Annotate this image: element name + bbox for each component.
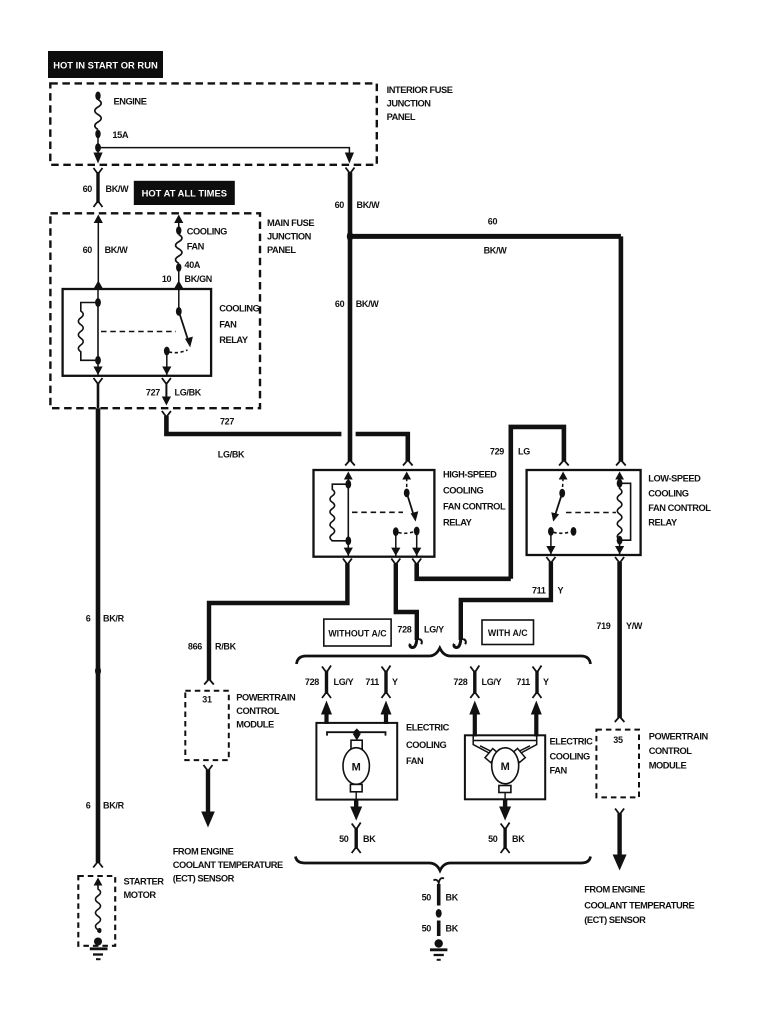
svg-text:866: 866 xyxy=(188,642,202,652)
arrow up fan2 wire a xyxy=(469,701,480,715)
wire: starter feed (thick left vertical) xyxy=(96,408,101,862)
svg-text:50: 50 xyxy=(339,834,349,844)
connector pair 711 (fan1) xyxy=(382,666,391,699)
svg-text:COOLING: COOLING xyxy=(443,486,483,496)
label 60 BK/W (upper) xyxy=(335,200,381,210)
node: junction on main vertical xyxy=(347,232,353,242)
label 10 BK/GN xyxy=(162,274,212,284)
fan2 brush angled left xyxy=(485,749,498,763)
wire: coil center xyxy=(97,303,99,361)
fork below HS relay (866 branch) xyxy=(343,559,352,565)
label LOW-SPEED COOLING FAN CONTROL RELAY xyxy=(648,474,711,528)
svg-text:M: M xyxy=(352,762,361,774)
arrow down fan1 ground xyxy=(350,807,362,821)
arrow up fan1 wire b xyxy=(381,701,392,715)
svg-text:FAN CONTROL: FAN CONTROL xyxy=(648,503,711,513)
svg-text:727: 727 xyxy=(146,388,160,398)
label FROM ENGINE COOLANT TEMPERATURE (ECT) SENSOR (left) xyxy=(173,847,283,884)
fan1 bus junction diamond xyxy=(353,728,361,736)
svg-text:BK: BK xyxy=(363,834,376,844)
arrow up into panel (left branch) xyxy=(94,215,103,224)
fork below LS relay (711 branch) xyxy=(546,557,555,563)
svg-text:BK/R: BK/R xyxy=(103,614,125,624)
svg-text:MOTOR: MOTOR xyxy=(124,890,157,900)
wire: fan2 ground lead xyxy=(503,799,507,808)
node: HS switch common xyxy=(404,489,410,498)
label 711 Y xyxy=(532,586,564,596)
HOT IN START OR RUN label xyxy=(48,51,163,78)
svg-text:31: 31 xyxy=(202,695,212,705)
arrow up at relay box entry (fuse branch) xyxy=(174,281,183,289)
svg-text:BK/W: BK/W xyxy=(484,246,508,256)
wire segment 2 xyxy=(437,921,441,937)
arrow up at relay box entry (left branch) xyxy=(94,281,103,289)
fork at low-speed relay entry right xyxy=(616,460,626,466)
ground chain: half connector xyxy=(434,878,445,885)
svg-text:COOLANT TEMPERATURE: COOLANT TEMPERATURE xyxy=(173,860,283,870)
fork below panel on 727 xyxy=(162,411,171,417)
svg-text:711: 711 xyxy=(532,586,546,596)
relay switch branch xyxy=(178,289,180,311)
label 50 BK (upper) xyxy=(422,893,459,903)
dashed wire to switch common xyxy=(406,478,408,493)
svg-text:728: 728 xyxy=(453,677,467,687)
wire: 866 elbow to PCM 31 xyxy=(209,564,347,681)
node: LS switch NC xyxy=(571,527,577,536)
arrow down LS out xyxy=(546,546,555,554)
svg-text:FAN: FAN xyxy=(187,242,205,252)
wire: 727 continues right of main vertical xyxy=(356,434,408,461)
label ELECTRIC COOLING FAN (1) xyxy=(406,723,450,767)
label 728 LG/Y xyxy=(453,677,501,687)
arrow down at panel exit 727 xyxy=(162,397,171,406)
svg-text:(ECT) SENSOR: (ECT) SENSOR xyxy=(584,915,646,925)
fuse ENGINE 15A (squiggle) xyxy=(95,100,101,130)
wire xyxy=(324,713,328,724)
svg-text:LG/Y: LG/Y xyxy=(334,677,354,687)
wire xyxy=(619,478,621,483)
svg-text:FAN: FAN xyxy=(406,756,424,766)
711 hook tail xyxy=(463,639,466,644)
wire xyxy=(97,221,99,289)
label: MAIN FUSE JUNCTION PANEL xyxy=(267,218,314,255)
WITHOUT A/C box xyxy=(324,619,391,646)
fan1 bus bar xyxy=(327,732,386,735)
LS coil squiggle center xyxy=(617,483,622,540)
lower brace (underbrace) xyxy=(296,857,591,871)
svg-text:BK: BK xyxy=(446,924,459,934)
svg-text:FROM ENGINE: FROM ENGINE xyxy=(173,847,234,857)
arrow up inside HS relay (coil) xyxy=(344,472,353,480)
wire xyxy=(384,713,388,724)
node: HS switch out A xyxy=(393,527,399,536)
electric cooling fan 2 box xyxy=(465,735,545,799)
node: LS switch out xyxy=(548,527,554,536)
fork at PCM 31 entry xyxy=(204,679,214,685)
dashed wire to LS switch common xyxy=(561,478,564,493)
fork at starter motor entry xyxy=(93,862,103,868)
svg-text:M: M xyxy=(501,761,510,773)
svg-text:10: 10 xyxy=(162,274,172,284)
svg-text:728: 728 xyxy=(397,625,411,635)
wire xyxy=(178,221,180,231)
wire xyxy=(97,383,100,408)
connector pair 728 (fan2) xyxy=(470,666,479,699)
label 729 LG xyxy=(490,447,530,457)
wire xyxy=(473,713,477,737)
label 60 BK/W (lower on main vertical) xyxy=(335,299,379,309)
svg-text:15A: 15A xyxy=(112,130,128,140)
fork at high-speed relay entry right xyxy=(403,460,413,466)
wire: thin feed across panel xyxy=(98,148,349,153)
cooling fan relay box xyxy=(63,289,212,376)
coil loop with squiggle xyxy=(78,303,98,361)
svg-text:60: 60 xyxy=(83,184,93,194)
svg-text:BK: BK xyxy=(446,893,459,903)
arrow down at HS coil exit xyxy=(344,548,353,556)
arrow down (to ECT sensor left) xyxy=(201,812,215,828)
ground ball xyxy=(435,939,443,947)
dashed actuator line HS xyxy=(352,511,403,513)
svg-text:RELAY: RELAY xyxy=(219,335,249,345)
node: splice dot xyxy=(436,909,442,918)
node: HS coil bottom xyxy=(345,536,351,545)
728 hook end xyxy=(410,634,417,648)
node: splice on starter feed xyxy=(95,667,101,676)
wire: out B down xyxy=(416,531,418,557)
fork below HS relay (728 branch) xyxy=(391,559,400,565)
LS coil loop (plain right side) xyxy=(620,483,631,540)
node: fuse bottom xyxy=(95,130,100,139)
svg-text:BK/W: BK/W xyxy=(357,200,381,210)
wire: LS out down xyxy=(550,531,552,555)
svg-text:LG: LG xyxy=(518,447,530,457)
wire: main vertical 60 BK/W (thick) xyxy=(348,173,353,462)
connector half (fork) top of main feed xyxy=(346,168,355,174)
arrow up fan2 wire b xyxy=(531,701,542,715)
LS switch blade xyxy=(555,493,562,515)
svg-text:JUNCTION: JUNCTION xyxy=(387,99,432,109)
svg-text:COOLING: COOLING xyxy=(550,752,590,762)
wire: 719 down to PCM 35 xyxy=(617,562,622,718)
fan2 yoke xyxy=(473,735,537,753)
wire: fan1 ground lead xyxy=(354,800,358,808)
relay coil branch xyxy=(97,289,99,303)
main fuse junction panel (dashed box) xyxy=(50,213,260,408)
svg-text:PANEL: PANEL xyxy=(267,245,296,255)
svg-text:MODULE: MODULE xyxy=(649,761,687,771)
svg-text:60: 60 xyxy=(335,200,345,210)
svg-text:BK: BK xyxy=(512,834,525,844)
label COOLING FAN xyxy=(187,227,227,252)
svg-text:MAIN FUSE: MAIN FUSE xyxy=(267,218,314,228)
fan2 bottom brush xyxy=(499,786,511,793)
dashed actuator line LS xyxy=(566,512,616,514)
svg-text:ENGINE: ENGINE xyxy=(114,97,147,107)
node: LS coil top xyxy=(617,479,623,488)
blade arrowhead xyxy=(185,337,193,348)
svg-text:50: 50 xyxy=(422,893,432,903)
svg-text:60: 60 xyxy=(83,245,93,255)
wire xyxy=(534,713,538,737)
label 711 Y xyxy=(516,677,549,687)
label 728 LG/Y xyxy=(305,677,354,687)
wire: fan1 motor to box bottom xyxy=(355,792,357,800)
svg-text:WITH A/C: WITH A/C xyxy=(488,628,528,638)
svg-text:LG/Y: LG/Y xyxy=(424,625,444,635)
label 60 BK/W xyxy=(83,184,130,194)
arrow up fan1 wire a xyxy=(321,701,332,715)
arrow up inside starter xyxy=(94,878,103,886)
fork below HS relay (729 branch) xyxy=(412,559,421,565)
arrow down out B xyxy=(412,548,421,556)
dashed contact link HS xyxy=(399,532,415,534)
label 6 BK/R (upper) xyxy=(86,614,125,624)
svg-text:STARTER: STARTER xyxy=(124,877,165,887)
svg-text:35: 35 xyxy=(613,735,623,745)
node: LS switch common xyxy=(559,489,565,498)
svg-text:60: 60 xyxy=(335,299,345,309)
svg-text:Y: Y xyxy=(392,677,398,687)
electric cooling fan 1 box xyxy=(316,723,397,800)
svg-text:CONTROL: CONTROL xyxy=(236,706,280,716)
svg-text:HIGH-SPEED: HIGH-SPEED xyxy=(443,470,497,480)
svg-text:711: 711 xyxy=(516,677,530,687)
label 50 BK (lower) xyxy=(422,924,459,934)
label 866 R/BK xyxy=(188,642,237,652)
fan1 center arrow xyxy=(353,734,361,741)
svg-text:(ECT) SENSOR: (ECT) SENSOR xyxy=(173,874,235,884)
arrow down at switch exit xyxy=(162,367,171,376)
svg-text:BK/W: BK/W xyxy=(356,299,380,309)
fork at PCM 35 entry xyxy=(615,717,625,723)
HS coil loop with squiggle xyxy=(330,484,348,541)
label 6 BK/R (lower) xyxy=(86,801,125,811)
svg-text:RELAY: RELAY xyxy=(443,518,473,528)
svg-text:WITHOUT A/C: WITHOUT A/C xyxy=(328,629,387,639)
wire: 727 elbow (thick) xyxy=(166,416,341,434)
node: switch output xyxy=(164,347,170,356)
dashed contact link LS xyxy=(554,532,571,534)
starter winding squiggle xyxy=(96,885,101,932)
svg-text:50: 50 xyxy=(488,834,498,844)
arrow down (to ECT sensor right) xyxy=(613,855,627,871)
label 50 BK (fan1) xyxy=(339,834,376,844)
svg-text:FAN: FAN xyxy=(550,766,568,776)
wire: horizontal 60 BK/W to right (thick) xyxy=(350,234,621,239)
svg-text:729: 729 xyxy=(490,447,504,457)
starter ground symbol xyxy=(90,949,108,959)
node: junction at 15A output xyxy=(95,143,101,152)
node: fuse top xyxy=(95,92,100,101)
label 728 LG/Y xyxy=(397,625,444,635)
fork below PCM 31 xyxy=(204,765,213,771)
wire: PCM 35 output down xyxy=(617,814,621,857)
svg-text:COOLING: COOLING xyxy=(219,304,259,314)
interior fuse junction panel (dashed box) xyxy=(50,83,377,164)
svg-text:POWERTRAIN: POWERTRAIN xyxy=(236,693,296,703)
svg-text:727: 727 xyxy=(220,417,234,427)
high-speed cooling fan control relay box xyxy=(314,470,435,557)
svg-text:40A: 40A xyxy=(185,260,201,270)
728 hook tail xyxy=(419,639,422,644)
wire xyxy=(165,383,167,397)
svg-text:728: 728 xyxy=(305,677,319,687)
fork at high-speed relay entry left xyxy=(345,460,355,466)
label COOLING FAN RELAY xyxy=(219,304,259,346)
fork below LS relay (719 branch) xyxy=(615,557,624,563)
svg-text:BK/GN: BK/GN xyxy=(185,274,213,284)
node: HS coil top xyxy=(345,480,351,489)
fork below relay (727 output) xyxy=(162,378,171,384)
node xyxy=(95,298,101,307)
label FROM ENGINE COOLANT TEMPERATURE (ECT) SENSOR (right) xyxy=(584,885,694,926)
starter ground ball xyxy=(94,938,102,946)
connector pair 711 (fan2) xyxy=(533,666,542,699)
arrow down at panel exit left xyxy=(93,153,102,164)
connector pair 728 (fan1) xyxy=(322,666,331,699)
svg-text:ELECTRIC: ELECTRIC xyxy=(550,737,594,747)
node: HS switch out B xyxy=(414,527,420,536)
wire segment xyxy=(437,884,441,906)
connector C (in-line) on left feed xyxy=(94,168,103,207)
wire xyxy=(619,540,621,555)
svg-text:HOT AT ALL TIMES: HOT AT ALL TIMES xyxy=(142,188,227,199)
label: INTERIOR FUSE JUNCTION PANEL xyxy=(387,85,453,122)
fan2 brush angled right xyxy=(512,748,525,762)
svg-text:6: 6 xyxy=(86,614,91,624)
arrow up into panel (fuse branch) xyxy=(174,215,183,224)
node xyxy=(95,356,101,365)
upper brace (overbrace) xyxy=(297,648,591,664)
label HIGH-SPEED COOLING FAN CONTROL RELAY xyxy=(443,470,506,528)
LS blade arrowhead xyxy=(551,512,559,521)
wire: PCM 31 output down xyxy=(206,770,210,813)
svg-text:60: 60 xyxy=(488,217,498,227)
wire xyxy=(178,268,180,290)
svg-text:COOLING: COOLING xyxy=(648,489,688,499)
arrow down LS coil exit xyxy=(615,546,624,554)
svg-text:711: 711 xyxy=(365,677,379,687)
wire: out A down xyxy=(395,532,397,557)
arrow up inside LS relay (coil) xyxy=(615,472,624,480)
arrow down out A xyxy=(391,548,400,556)
node: LS coil bottom xyxy=(617,536,623,545)
svg-text:LOW-SPEED: LOW-SPEED xyxy=(648,474,701,484)
svg-text:POWERTRAIN: POWERTRAIN xyxy=(649,732,709,742)
svg-text:BK/W: BK/W xyxy=(106,184,130,194)
711 hook end xyxy=(454,634,461,648)
node: fuse bottom xyxy=(176,263,181,272)
wire: HS coil center xyxy=(347,484,349,541)
wire xyxy=(97,134,99,148)
label 50 BK (fan2) xyxy=(488,834,525,844)
svg-text:INTERIOR FUSE: INTERIOR FUSE xyxy=(387,85,453,95)
wire: right vertical feed to low-speed relay xyxy=(619,236,624,461)
svg-text:Y/W: Y/W xyxy=(626,621,643,631)
connector pair 50 BK (fan2) xyxy=(501,823,510,854)
label 711 Y xyxy=(365,677,398,687)
arrow down at panel exit right xyxy=(345,153,354,164)
label 727 LG/BK xyxy=(146,388,202,398)
svg-text:CONTROL: CONTROL xyxy=(649,746,693,756)
wire xyxy=(97,148,99,153)
HS blade arrowhead xyxy=(411,511,419,521)
node: switch common xyxy=(176,307,182,316)
arrow up inside LS relay (switch) xyxy=(559,472,568,480)
arrow down fan2 ground xyxy=(499,807,511,821)
fan1 bottom brush xyxy=(350,784,362,791)
wire: fan2 motor to box bottom xyxy=(504,793,506,800)
connector pair 50 BK (fan1) xyxy=(352,823,361,854)
powertrain control module 35 box (dashed) xyxy=(596,730,639,798)
wire: 729 LG riser and link xyxy=(511,427,564,579)
svg-text:PANEL: PANEL xyxy=(387,112,416,122)
svg-text:RELAY: RELAY xyxy=(648,518,678,528)
svg-text:HOT IN START OR RUN: HOT IN START OR RUN xyxy=(53,60,158,71)
svg-text:R/BK: R/BK xyxy=(215,642,237,652)
fork below PCM 35 xyxy=(615,809,624,815)
powertrain control module 31 box (dashed) xyxy=(185,691,229,760)
node: cooling fan fuse top xyxy=(176,226,181,235)
wire: 711 elbow xyxy=(461,562,551,640)
fork below relay (left) xyxy=(94,378,103,384)
svg-text:BK/R: BK/R xyxy=(103,801,125,811)
switch blade diagonal xyxy=(179,311,188,340)
wire: switch output down xyxy=(166,351,168,376)
label STARTER MOTOR xyxy=(124,877,165,901)
svg-text:COOLING: COOLING xyxy=(406,740,446,750)
motor M2 xyxy=(492,748,519,784)
svg-text:LG/Y: LG/Y xyxy=(482,677,502,687)
label ELECTRIC COOLING FAN (2) xyxy=(550,737,594,776)
dashed contact link xyxy=(169,350,188,353)
svg-text:FROM ENGINE: FROM ENGINE xyxy=(584,885,645,895)
fuse COOLING FAN 40A (squiggle) xyxy=(176,235,182,264)
ground symbol xyxy=(430,950,447,960)
svg-text:MODULE: MODULE xyxy=(236,720,274,730)
label 60 BK/W (inside panel) xyxy=(83,245,129,255)
wire xyxy=(347,541,349,557)
svg-text:ELECTRIC: ELECTRIC xyxy=(406,723,450,733)
label POWERTRAIN CONTROL MODULE (right) xyxy=(649,732,709,771)
label 719 Y/W xyxy=(596,621,643,631)
arrow up inside HS relay (switch) xyxy=(402,472,411,480)
svg-text:COOLANT TEMPERATURE: COOLANT TEMPERATURE xyxy=(584,901,694,911)
HOT AT ALL TIMES label xyxy=(134,181,235,205)
starter winding end dot xyxy=(98,928,102,933)
svg-text:Y: Y xyxy=(543,677,549,687)
fork at low-speed relay entry left xyxy=(559,460,569,466)
svg-text:JUNCTION: JUNCTION xyxy=(267,232,312,242)
label POWERTRAIN CONTROL MODULE (left) xyxy=(236,693,296,730)
svg-text:LG/BK: LG/BK xyxy=(175,388,202,398)
starter motor box (dashed) xyxy=(78,876,115,946)
svg-text:BK/W: BK/W xyxy=(105,245,129,255)
wire xyxy=(347,478,349,484)
HS switch blade xyxy=(407,493,414,516)
wire to box bottom xyxy=(97,360,99,376)
motor M1 xyxy=(343,748,369,785)
WITH A/C box xyxy=(482,620,534,645)
svg-text:COOLING: COOLING xyxy=(187,227,227,237)
fan1 brush cap xyxy=(351,740,362,749)
svg-text:LG/BK: LG/BK xyxy=(218,450,245,460)
dashed actuator line xyxy=(101,331,176,333)
svg-text:6: 6 xyxy=(86,801,91,811)
svg-text:719: 719 xyxy=(596,621,610,631)
svg-text:FAN CONTROL: FAN CONTROL xyxy=(443,502,506,512)
